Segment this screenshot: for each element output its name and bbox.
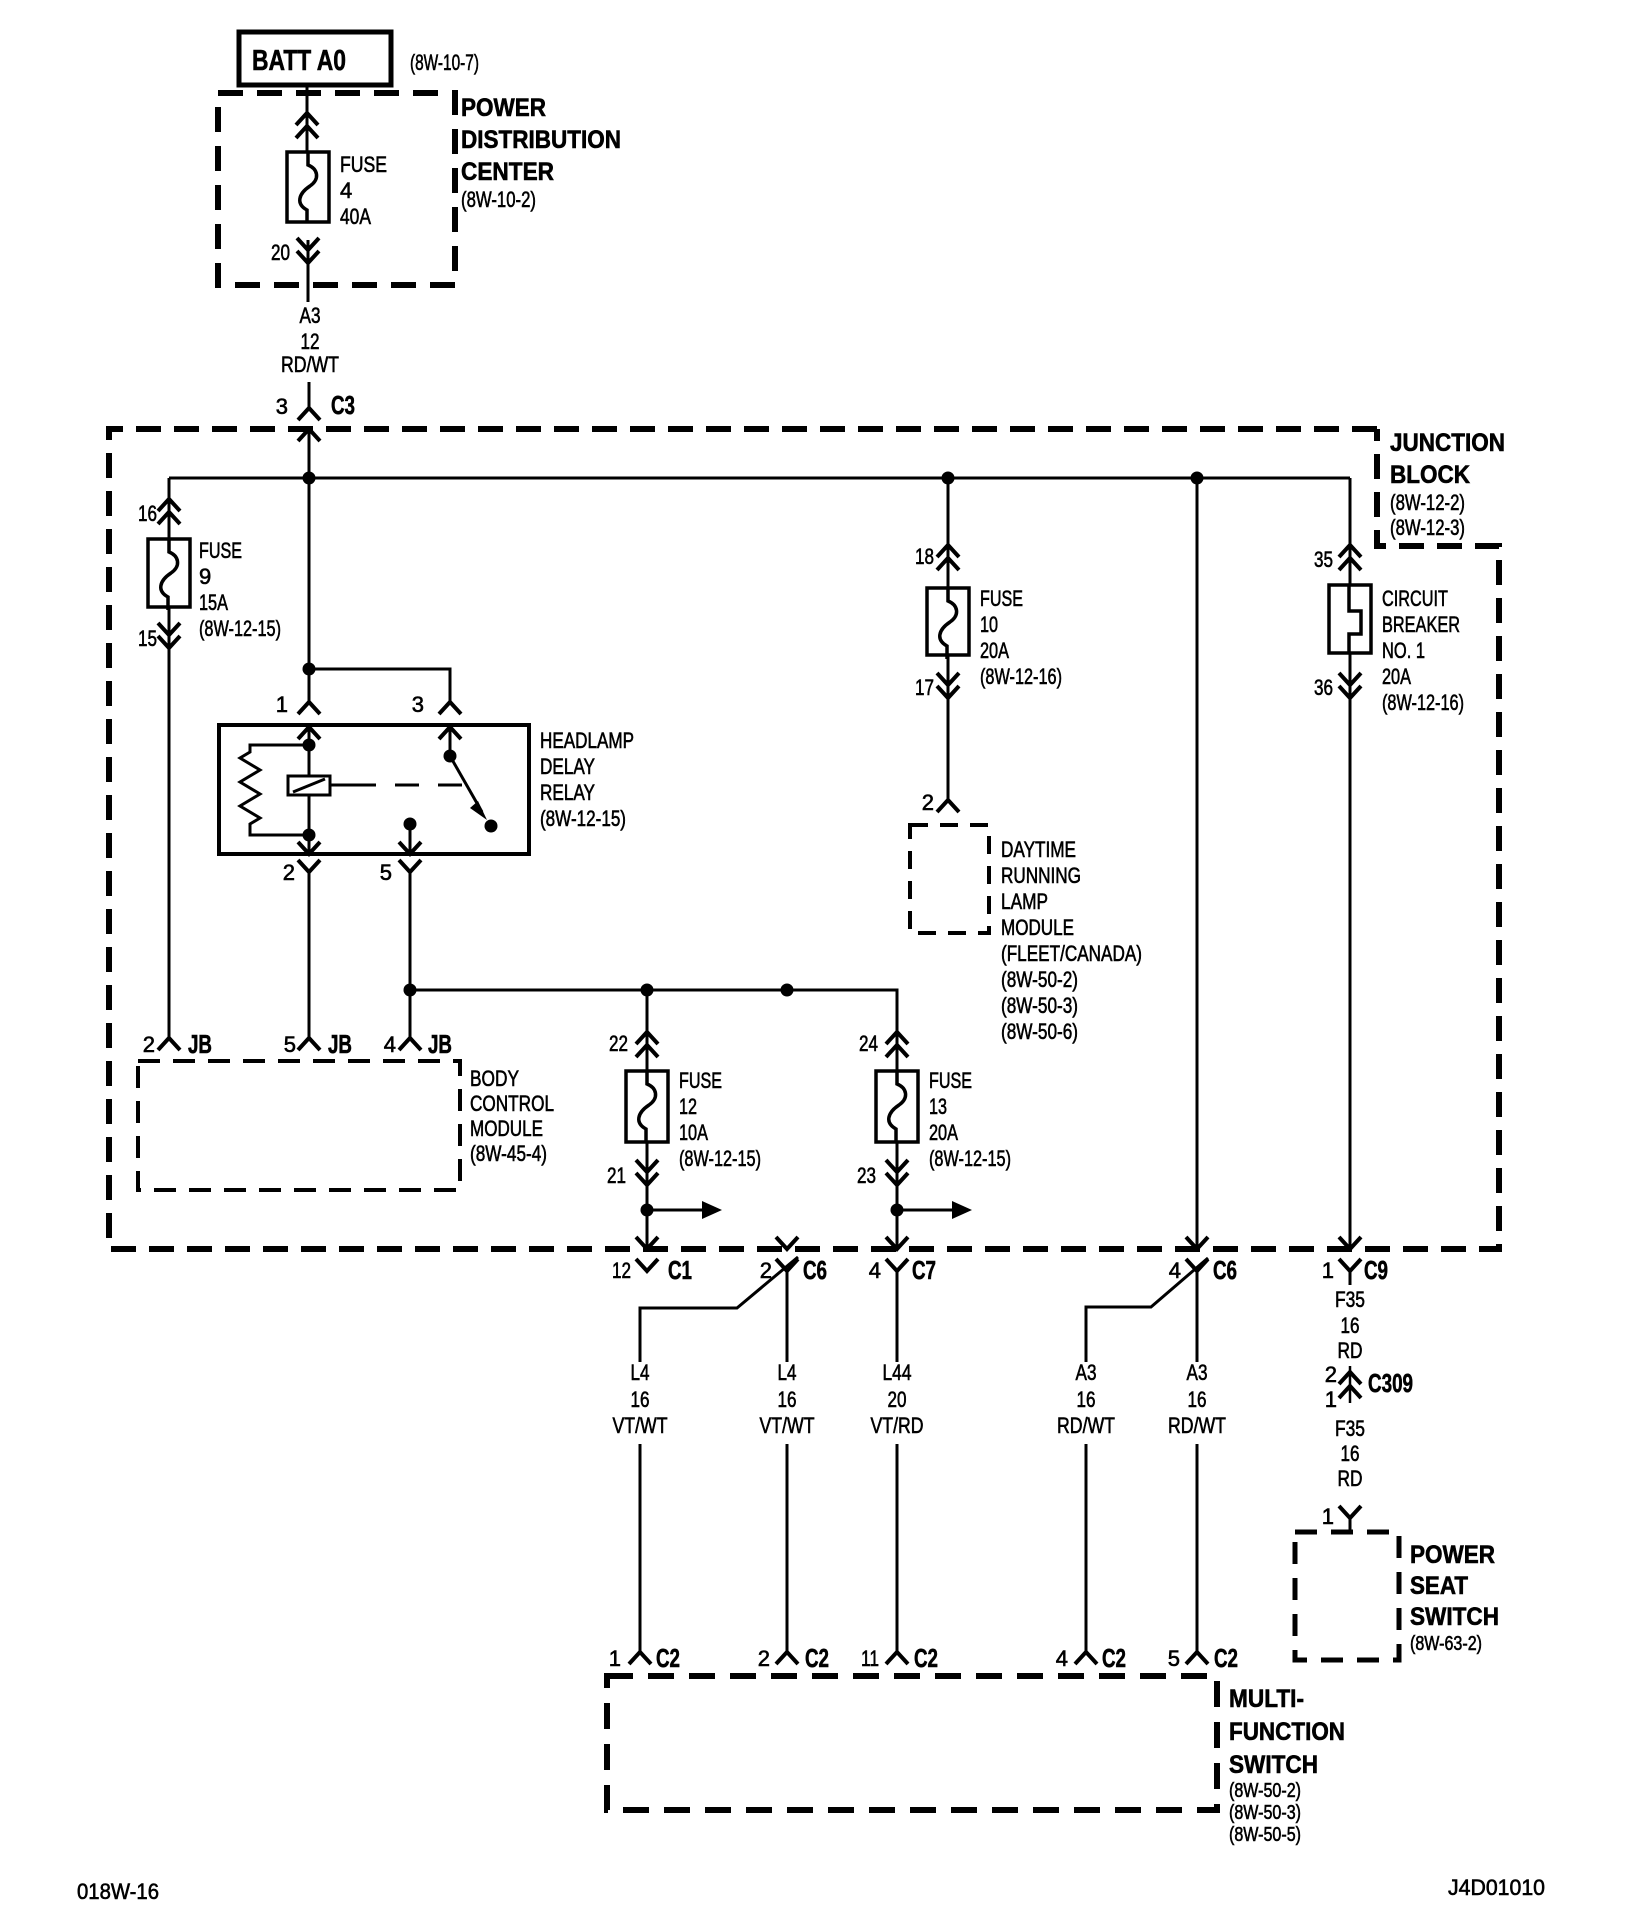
svg-text:NO. 1: NO. 1 [1382, 638, 1425, 663]
svg-text:4: 4 [1169, 1258, 1181, 1283]
BCM connector JB cavity 5 [298, 1038, 320, 1050]
svg-text:(8W-12-15): (8W-12-15) [540, 806, 626, 831]
battery feed box BATT A0 [239, 32, 391, 85]
fuse 9 15A [148, 539, 190, 607]
svg-text:(8W-12-16): (8W-12-16) [980, 664, 1062, 689]
svg-text:C6: C6 [1213, 1255, 1237, 1285]
wire to relay pin 3 [309, 669, 450, 702]
svg-text:CIRCUIT: CIRCUIT [1382, 586, 1448, 611]
svg-text:JB: JB [188, 1029, 212, 1059]
connector C7 cavity 4 [886, 1237, 908, 1249]
wire to BCM cavity 4 [409, 990, 412, 1038]
relay actuation dashed link [330, 784, 352, 787]
relay coil node top [303, 739, 316, 752]
cavity 35 chevrons [1339, 545, 1361, 557]
svg-text:MODULE: MODULE [1001, 915, 1074, 940]
svg-text:(8W-45-4): (8W-45-4) [470, 1141, 547, 1166]
junction block dashed outline [109, 429, 1499, 1249]
wire to relay pin 1 [308, 478, 311, 702]
wire relay pin 5 to distribution node [409, 884, 412, 990]
svg-text:L4: L4 [778, 1360, 797, 1385]
svg-text:C3: C3 [331, 390, 355, 420]
wire relay pin 2 to BCM connector [308, 884, 311, 1038]
svg-text:SWITCH: SWITCH [1410, 1603, 1499, 1631]
power seat switch connector pin 1 [1339, 1506, 1361, 1518]
svg-text:21: 21 [607, 1163, 626, 1188]
distribution wire to fuses 12 and 13 [410, 990, 897, 1032]
svg-text:(8W-12-2): (8W-12-2) [1390, 490, 1465, 515]
svg-text:SEAT: SEAT [1410, 1572, 1468, 1600]
junction node at main wire [303, 472, 316, 485]
svg-text:11: 11 [861, 1646, 879, 1671]
svg-text:2: 2 [283, 860, 295, 885]
junction node relay feed [303, 663, 316, 676]
svg-text:C2: C2 [656, 1643, 680, 1673]
svg-text:(8W-12-15): (8W-12-15) [679, 1146, 761, 1171]
svg-text:12: 12 [301, 329, 320, 354]
cavity 23 chevrons [886, 1173, 908, 1185]
svg-text:4: 4 [340, 178, 352, 203]
svg-text:DAYTIME: DAYTIME [1001, 837, 1076, 862]
splice jog C6-4 to column 4 [1086, 1258, 1208, 1362]
svg-text:16: 16 [631, 1387, 650, 1412]
relay coil [308, 745, 311, 835]
relay pin 3 connector [439, 702, 461, 714]
svg-text:36: 36 [1314, 675, 1333, 700]
relay pin 1 connector [298, 702, 320, 714]
cavity 22 chevrons [636, 1032, 658, 1044]
wire bus to fuse 10 [947, 478, 950, 588]
svg-text:9: 9 [199, 564, 211, 589]
connector C2 cavity 2 [776, 1652, 798, 1664]
fuse 10 20A [927, 588, 969, 655]
svg-text:13: 13 [929, 1094, 947, 1119]
svg-text:20A: 20A [980, 638, 1009, 663]
svg-text:(8W-63-2): (8W-63-2) [1410, 1633, 1482, 1655]
multi-function switch dashed box [607, 1676, 1217, 1810]
svg-text:C1: C1 [668, 1255, 692, 1285]
svg-text:RD: RD [1338, 1466, 1363, 1491]
fuse 13 20A [876, 1071, 918, 1142]
svg-text:1: 1 [1322, 1258, 1334, 1283]
cavity 17 chevrons [937, 686, 959, 698]
sheet continuation arrow [647, 1209, 704, 1212]
svg-text:1: 1 [1325, 1387, 1337, 1412]
svg-text:24: 24 [859, 1031, 878, 1056]
svg-text:2: 2 [143, 1032, 155, 1057]
svg-text:POWER: POWER [1410, 1541, 1495, 1569]
svg-text:L44: L44 [883, 1360, 912, 1385]
svg-text:2: 2 [1325, 1362, 1337, 1387]
wire fuse 10 to DRL module [947, 655, 950, 800]
connector C309 [1349, 1366, 1352, 1403]
DRL module connector pin 2 [937, 800, 959, 812]
wire bus to circuit breaker [1349, 478, 1352, 585]
svg-text:A3: A3 [300, 303, 321, 328]
svg-text:L4: L4 [631, 1360, 650, 1385]
svg-text:MODULE: MODULE [470, 1116, 543, 1141]
junction node C6 branch [1191, 472, 1204, 485]
sheet continuation arrow [897, 1209, 954, 1212]
svg-text:(8W-12-15): (8W-12-15) [199, 616, 281, 641]
cavity 36 chevrons [1339, 686, 1361, 698]
svg-text:BREAKER: BREAKER [1382, 612, 1460, 637]
svg-text:RELAY: RELAY [540, 780, 595, 805]
daytime running lamp module dashed box [910, 825, 989, 933]
connector C2 cavity 1 [629, 1652, 651, 1664]
svg-text:JB: JB [328, 1029, 352, 1059]
bus wire inside junction block [169, 477, 1350, 480]
cavity 18 chevrons [937, 545, 959, 557]
fuse 12 10A [626, 1071, 668, 1142]
svg-text:(8W-12-16): (8W-12-16) [1382, 690, 1464, 715]
node with sheet arrow [641, 1204, 654, 1217]
wire label to connector C3 [308, 382, 311, 408]
wire C3 down to bus [308, 429, 311, 478]
chevrons into PDC [296, 113, 318, 125]
svg-text:JUNCTION: JUNCTION [1390, 429, 1505, 457]
svg-text:C2: C2 [914, 1643, 938, 1673]
svg-text:16: 16 [1188, 1387, 1207, 1412]
svg-text:VT/WT: VT/WT [613, 1413, 668, 1438]
node pin5 branch [404, 984, 417, 997]
svg-text:15A: 15A [199, 590, 228, 615]
svg-text:16: 16 [138, 501, 157, 526]
relay pin 5 node [404, 818, 417, 831]
svg-text:FUSE: FUSE [340, 152, 387, 177]
connector C6 cavity 4 [1186, 1237, 1208, 1249]
svg-text:1: 1 [1322, 1504, 1334, 1529]
svg-text:C7: C7 [912, 1255, 936, 1285]
connector C2 cavity 11 [886, 1652, 908, 1664]
svg-text:35: 35 [1314, 547, 1333, 572]
svg-text:(8W-50-6): (8W-50-6) [1001, 1019, 1078, 1044]
svg-text:2: 2 [758, 1646, 770, 1671]
svg-text:22: 22 [609, 1031, 628, 1056]
fuse 4 40A [287, 152, 329, 222]
svg-text:5: 5 [380, 860, 392, 885]
svg-text:4: 4 [869, 1258, 881, 1283]
svg-text:2: 2 [922, 790, 934, 815]
connector C2 cavity 4 [1075, 1652, 1097, 1664]
wire node to fuse 13 [896, 990, 899, 1071]
svg-text:20A: 20A [1382, 664, 1411, 689]
relay pin 5 connector [399, 842, 421, 854]
node fuse 12 branch [641, 984, 654, 997]
BCM connector JB cavity 2 [158, 1038, 180, 1050]
wire bus to connector C6 cavity 4 [1196, 478, 1199, 1249]
svg-text:DELAY: DELAY [540, 754, 595, 779]
svg-text:1: 1 [609, 1646, 621, 1671]
svg-text:VT/RD: VT/RD [871, 1413, 924, 1438]
svg-text:4: 4 [1056, 1646, 1068, 1671]
svg-text:C2: C2 [1214, 1643, 1238, 1673]
svg-text:16: 16 [1077, 1387, 1096, 1412]
svg-text:(8W-50-3): (8W-50-3) [1229, 1802, 1301, 1824]
svg-text:20: 20 [888, 1387, 907, 1412]
wire node to fuse 12 [646, 990, 649, 1071]
relay pin 2 connector [308, 835, 311, 854]
svg-text:F35: F35 [1335, 1416, 1365, 1441]
connector C2 cavity 5 [1186, 1652, 1208, 1664]
svg-text:BODY: BODY [470, 1066, 519, 1091]
circuit breaker no. 1 [1329, 585, 1371, 653]
svg-text:(8W-50-5): (8W-50-5) [1229, 1824, 1301, 1846]
wire fuse 12 to C1 [646, 1142, 649, 1249]
svg-text:RD/WT: RD/WT [1168, 1413, 1226, 1438]
relay coil node bottom [303, 829, 316, 842]
svg-text:BATT A0: BATT A0 [252, 45, 346, 77]
body control module dashed box [138, 1061, 460, 1190]
connector C1 cavity 12 [636, 1237, 658, 1249]
svg-text:SWITCH: SWITCH [1229, 1751, 1318, 1779]
svg-text:RUNNING: RUNNING [1001, 863, 1081, 888]
cavity 16 chevrons [158, 499, 180, 511]
svg-text:18: 18 [915, 544, 934, 569]
svg-text:(8W-50-3): (8W-50-3) [1001, 993, 1078, 1018]
svg-text:C9: C9 [1364, 1255, 1388, 1285]
svg-text:BLOCK: BLOCK [1390, 461, 1470, 489]
svg-text:C2: C2 [1102, 1643, 1126, 1673]
svg-text:A3: A3 [1076, 1360, 1097, 1385]
node with sheet arrow [891, 1204, 904, 1217]
svg-text:17: 17 [915, 675, 934, 700]
wire circuit breaker to C9 [1349, 653, 1352, 1249]
svg-text:16: 16 [1341, 1313, 1360, 1338]
svg-text:RD/WT: RD/WT [281, 352, 339, 377]
junction node fuse 10 branch [942, 472, 955, 485]
headlamp delay relay box [219, 725, 529, 854]
relay switch common node [444, 750, 457, 763]
svg-text:20A: 20A [929, 1120, 958, 1145]
svg-text:3: 3 [412, 692, 424, 717]
svg-text:FUSE: FUSE [929, 1068, 972, 1093]
svg-text:J4D01010: J4D01010 [1448, 1875, 1545, 1900]
svg-text:CENTER: CENTER [461, 158, 554, 186]
relay resistor [240, 745, 309, 835]
svg-text:23: 23 [857, 1163, 876, 1188]
relay switch contact node [485, 820, 498, 833]
BCM connector JB cavity 4 [399, 1038, 421, 1050]
power seat switch dashed box [1295, 1532, 1399, 1660]
connector C3 pin 3 [298, 408, 320, 420]
svg-text:HEADLAMP: HEADLAMP [540, 728, 634, 753]
svg-text:(FLEET/CANADA): (FLEET/CANADA) [1001, 941, 1142, 966]
cavity 15 chevrons [158, 636, 180, 648]
svg-text:F35: F35 [1335, 1287, 1365, 1312]
svg-text:(8W-12-15): (8W-12-15) [929, 1146, 1011, 1171]
svg-text:(8W-50-2): (8W-50-2) [1001, 967, 1078, 992]
wire fuse 13 to C7 [896, 1142, 899, 1249]
power distribution center dashed box [218, 93, 455, 285]
svg-text:16: 16 [778, 1387, 797, 1412]
svg-text:POWER: POWER [461, 94, 546, 122]
svg-text:(8W-50-2): (8W-50-2) [1229, 1780, 1301, 1802]
svg-text:16: 16 [1341, 1441, 1360, 1466]
svg-text:DISTRIBUTION: DISTRIBUTION [461, 126, 621, 154]
svg-text:10: 10 [980, 612, 998, 637]
svg-text:(8W-10-7): (8W-10-7) [410, 50, 479, 75]
wire battery to fuse 4 [306, 85, 309, 152]
node C6 cavity 2 branch [781, 984, 794, 997]
svg-text:FUSE: FUSE [980, 586, 1023, 611]
wire bus to fuse 9 [168, 478, 171, 499]
svg-text:20: 20 [271, 240, 290, 265]
wire fuse 9 to BCM connector [168, 607, 171, 1038]
svg-text:15: 15 [138, 626, 157, 651]
svg-text:CONTROL: CONTROL [470, 1091, 554, 1116]
svg-text:VT/WT: VT/WT [760, 1413, 815, 1438]
svg-text:1: 1 [276, 692, 288, 717]
cavity 21 chevrons [636, 1173, 658, 1185]
relay switch blade [450, 756, 482, 812]
svg-text:10A: 10A [679, 1120, 708, 1145]
svg-text:40A: 40A [340, 204, 371, 229]
svg-text:4: 4 [384, 1032, 396, 1057]
svg-text:RD: RD [1338, 1338, 1363, 1363]
svg-text:C2: C2 [805, 1643, 829, 1673]
svg-text:(8W-10-2): (8W-10-2) [461, 187, 536, 212]
svg-text:12: 12 [612, 1258, 631, 1283]
svg-text:LAMP: LAMP [1001, 889, 1048, 914]
splice jog C6-2 to column 1 [640, 1257, 798, 1362]
svg-text:A3: A3 [1187, 1360, 1208, 1385]
svg-text:5: 5 [284, 1032, 296, 1057]
svg-text:12: 12 [679, 1094, 697, 1119]
svg-text:JB: JB [428, 1029, 452, 1059]
connector C6 cavity 2 [776, 1237, 798, 1249]
svg-text:MULTI-: MULTI- [1229, 1685, 1304, 1713]
svg-text:RD/WT: RD/WT [1057, 1413, 1115, 1438]
svg-text:C309: C309 [1368, 1368, 1413, 1398]
connector C9 cavity 1 [1339, 1237, 1361, 1249]
svg-text:C6: C6 [803, 1255, 827, 1285]
chevrons out of PDC [297, 251, 319, 263]
svg-text:FUSE: FUSE [679, 1068, 722, 1093]
svg-text:018W-16: 018W-16 [77, 1879, 159, 1904]
svg-text:FUSE: FUSE [199, 538, 242, 563]
svg-text:FUNCTION: FUNCTION [1229, 1718, 1345, 1746]
wire fuse 4 to label A3 [307, 240, 310, 302]
svg-text:(8W-12-3): (8W-12-3) [1390, 515, 1465, 540]
cavity 24 chevrons [886, 1032, 908, 1044]
svg-text:3: 3 [276, 394, 288, 419]
svg-text:5: 5 [1168, 1646, 1180, 1671]
